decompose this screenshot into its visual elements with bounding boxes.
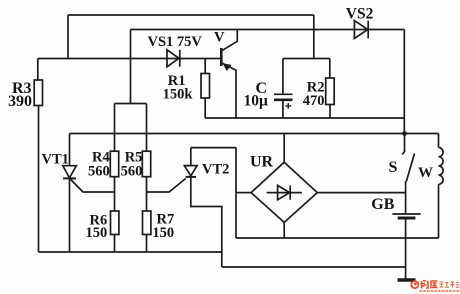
- svg-text:V: V: [214, 30, 225, 46]
- battery GB plates: [392, 213, 420, 215]
- wire R2 bottom lead: [329, 105, 331, 119]
- transistor V emitter arrowhead: [223, 63, 232, 71]
- resistor R4: [110, 151, 118, 177]
- wire main mid rail y=133.5: [70, 133, 439, 135]
- wire rail2 (collector/VS2 line): [131, 29, 405, 31]
- wire R3 bottom lead to bottom-left rail: [38, 106, 40, 253]
- svg-text:VS1 75V: VS1 75V: [148, 34, 203, 50]
- watermark logo circle: [411, 281, 418, 288]
- wire R4 to R6: [114, 177, 116, 211]
- wire R4/R5 tee header: [115, 103, 147, 105]
- svg-text:UR: UR: [250, 154, 274, 171]
- wire switch bottom to battery: [405, 181, 407, 214]
- wire rail2 left leg down to VS1 line and R4/R5 tee: [130, 30, 132, 104]
- wire bridge left link: [236, 192, 251, 194]
- inductor W bottom leg: [438, 184, 440, 238]
- wire bottom-left rail: [39, 251, 222, 253]
- wire battery negative down: [405, 220, 407, 280]
- svg-text:GB: GB: [371, 196, 394, 213]
- transistor V base bar: [220, 48, 223, 66]
- resistor R6: [111, 211, 119, 235]
- wire VS1 base line: [38, 58, 221, 60]
- wire VT2 anode lead up: [190, 148, 192, 166]
- thyristor VT2: [184, 166, 197, 176]
- resistor R2: [326, 78, 335, 105]
- wire VT2 anode top link: [191, 147, 236, 149]
- watermark secondary glyphs: [440, 282, 460, 288]
- wire R6 bottom lead: [114, 235, 116, 253]
- resistor R5: [142, 151, 150, 177]
- inductor W top leg: [438, 134, 440, 148]
- wire R5 top leg: [146, 104, 148, 152]
- svg-text:VT1: VT1: [42, 152, 69, 168]
- svg-text:10μ: 10μ: [244, 93, 269, 110]
- svg-text:150: 150: [86, 225, 108, 241]
- wire R1 bottom lead: [204, 98, 206, 118]
- resistor R3: [34, 80, 42, 106]
- wire VT2 gate: [147, 178, 186, 192]
- inductor W coil: [439, 148, 444, 185]
- wire VT1 cathode lead: [69, 178, 71, 252]
- thyristor VT1: [63, 166, 77, 178]
- wire R2 top lead: [329, 59, 331, 79]
- svg-text:470: 470: [303, 93, 325, 109]
- wire bridge right link to switch column: [317, 192, 405, 194]
- bridge rectifier UR diamond: [251, 162, 317, 222]
- svg-text:150: 150: [152, 225, 174, 241]
- wire mid rail y=118: [205, 117, 404, 119]
- wire R3 top lead: [37, 59, 39, 81]
- diode VS2: [354, 21, 368, 39]
- junction node dot: [402, 131, 407, 136]
- wire VT2 cathode lead: [191, 177, 222, 267]
- wire bridge bottom rail y=238: [236, 237, 439, 239]
- wire top rail right leg: [313, 15, 315, 59]
- svg-text:390: 390: [8, 93, 32, 110]
- wire bridge bottom lead: [283, 222, 285, 238]
- capacitor C polarity plus: [285, 103, 291, 109]
- wire C bottom lead: [282, 100, 284, 118]
- svg-text:VS2: VS2: [346, 5, 374, 22]
- switch S top lead with hook: [402, 134, 404, 155]
- resistor R1 top lead: [204, 59, 206, 74]
- wire VT1 gate: [71, 180, 115, 193]
- resistor R1: [201, 74, 210, 99]
- svg-text:150k: 150k: [163, 86, 194, 102]
- switch S blade: [406, 154, 414, 182]
- wire VS2 right leg down to junction: [403, 30, 405, 134]
- watermark tagline: [420, 290, 460, 292]
- wire top rail: [68, 14, 314, 16]
- bridge inner diode: [267, 192, 302, 194]
- svg-text:S: S: [389, 159, 398, 176]
- transistor V collector: [222, 30, 238, 51]
- wire bridge top lead: [283, 134, 285, 163]
- zener diode VS1: [167, 50, 180, 67]
- capacitor C plates: [274, 93, 293, 95]
- wire C-R2 top link: [283, 58, 330, 60]
- capacitor C top lead: [282, 59, 284, 95]
- svg-text:560: 560: [88, 164, 110, 180]
- wire R4 top leg: [114, 104, 116, 152]
- wire top rail left leg: [67, 15, 69, 59]
- wire lower rail y=267: [222, 266, 406, 268]
- transistor V emitter: [222, 63, 236, 118]
- thyristor VT1 anode lead: [69, 134, 71, 166]
- svg-text:W: W: [418, 165, 433, 181]
- watermark brand glyph block 1: [421, 281, 438, 289]
- ground terminal bar: [398, 278, 416, 281]
- wire right leg of VT2 link down: [235, 148, 237, 238]
- svg-text:560: 560: [121, 164, 143, 180]
- resistor R7: [143, 211, 151, 235]
- svg-text:VT2: VT2: [202, 161, 229, 177]
- wire R7 bottom lead: [146, 235, 148, 253]
- wire R5 to R7: [146, 177, 148, 211]
